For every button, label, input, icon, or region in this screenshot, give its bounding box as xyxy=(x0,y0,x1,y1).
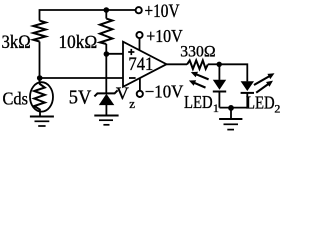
LED1 emission arrow lower xyxy=(189,80,206,87)
svg-text:+10V: +10V xyxy=(146,26,183,46)
svg-text:−10V: −10V xyxy=(145,82,184,102)
LED2 emission arrow lower xyxy=(256,81,273,93)
zener diode D1 triangle xyxy=(99,94,115,105)
op-amp - input marker xyxy=(129,77,136,79)
LED1 cathode bar xyxy=(213,91,226,93)
resistor R2 10kΩ zigzag xyxy=(100,19,113,44)
LED1 triangle xyxy=(213,80,226,90)
node A junction dot (3k / Cds / - input) xyxy=(37,75,43,81)
wire top rail from 3k top to +10V terminal xyxy=(40,10,136,21)
svg-text:10kΩ: 10kΩ xyxy=(59,33,98,53)
svg-text:Cds: Cds xyxy=(3,89,29,109)
wire op-amp output to 330 resistor xyxy=(167,63,188,65)
svg-text:LED: LED xyxy=(184,92,213,112)
svg-text:741: 741 xyxy=(128,55,153,75)
wire Cds bottom to ground xyxy=(39,112,41,116)
LED2 triangle xyxy=(241,81,254,91)
wire 10k top stub xyxy=(105,10,107,19)
terminal +10V op-amp supply xyxy=(136,32,142,38)
junction dot node B (10k / zener / + input) xyxy=(104,51,110,57)
LED2 cathode bar xyxy=(241,92,254,94)
zener diode D1 cathode bar with wings xyxy=(94,90,117,96)
wire top node to LED2 branch xyxy=(219,64,247,81)
wire LED bottom rail xyxy=(219,107,247,109)
svg-text:z: z xyxy=(129,96,135,111)
wire noninverting input (node B to op-amp) xyxy=(106,53,123,55)
wire op-amp V+ pin xyxy=(139,38,141,50)
resistor R3 330Ω zigzag xyxy=(187,60,208,69)
wire zener anode to ground xyxy=(105,105,107,115)
LED2 cathode wire xyxy=(246,93,248,108)
ground under LEDs xyxy=(219,119,242,130)
photoresistor Cds ellipse xyxy=(30,82,53,111)
wire LED node to ground xyxy=(230,108,232,119)
op-amp U1 741 triangle xyxy=(123,42,167,87)
LED2 emission arrow upper xyxy=(254,73,275,85)
terminal -10V op-amp supply xyxy=(137,91,143,97)
svg-text:LED: LED xyxy=(246,92,275,112)
wire 3k bottom to node A xyxy=(39,42,41,84)
ground under Cds xyxy=(30,117,54,127)
svg-text:+10V: +10V xyxy=(145,2,181,22)
LED1 anode wire xyxy=(218,64,220,80)
resistor R1 3kΩ zigzag xyxy=(33,21,45,42)
LED1 cathode wire xyxy=(218,91,220,108)
junction dot 10k top on +10V rail xyxy=(104,7,110,13)
ground under zener xyxy=(94,116,118,125)
svg-text:3kΩ: 3kΩ xyxy=(2,32,32,53)
junction dot LED ground node xyxy=(228,105,234,111)
op-amp + input marker xyxy=(128,49,134,55)
LED1 emission arrow upper xyxy=(191,72,209,80)
terminal +10V top rail xyxy=(136,7,142,13)
svg-text:330Ω: 330Ω xyxy=(180,44,216,61)
wire 330 to LED node xyxy=(208,63,220,65)
photoresistor Cds inner zigzag xyxy=(34,83,45,112)
wire 10k bottom to node B xyxy=(105,44,107,54)
svg-text:2: 2 xyxy=(274,102,280,116)
wire inverting input (node A to op-amp) xyxy=(40,77,124,79)
svg-text:5V: 5V xyxy=(69,86,92,108)
wire node B down to zener xyxy=(105,54,107,93)
junction dot LED top node xyxy=(217,62,222,67)
svg-text:1: 1 xyxy=(213,101,219,115)
wire op-amp V- pin xyxy=(139,78,141,91)
